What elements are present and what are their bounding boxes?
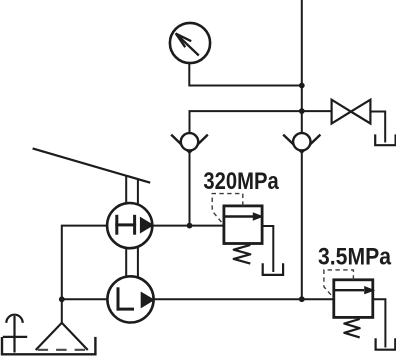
- wire: 3.5MPa relief outlet to tank: [373, 299, 386, 347]
- check valve (right): [283, 133, 320, 152]
- reservoir (bottom left tank): [2, 337, 95, 354]
- tank symbol (top right): [375, 134, 395, 145]
- check valve (left): [171, 133, 208, 152]
- spring of 320MPa relief: [234, 245, 251, 264]
- junction dot (H outlet / check valve): [187, 223, 193, 229]
- junction dot (shutoff branch): [299, 108, 305, 114]
- tank symbol (320MPa relief): [263, 263, 283, 275]
- junction dot (main line / 3.5MPa branch): [299, 296, 305, 302]
- suction strainer: [36, 323, 88, 350]
- wire: H pump outlet to 320MPa relief inlet: [152, 225, 224, 227]
- svg-text:320MPa: 320MPa: [203, 167, 279, 194]
- wire: main vertical supply line: [301, 0, 303, 299]
- wire: shutoff valve outlet to tank: [370, 112, 385, 143]
- pilot line (dashed) of 3.5MPa relief: [324, 270, 354, 298]
- pump L (low pressure): [107, 276, 154, 322]
- pump drive shaft (double lines): [126, 176, 138, 278]
- breather / vent pipe: [6, 315, 22, 353]
- lever (hand pump handle): [33, 148, 151, 182]
- pump H (high pressure): [107, 203, 154, 248]
- wire: gauge branch to main line: [189, 60, 301, 85]
- junction dot (gauge branch): [299, 83, 305, 89]
- svg-text:3.5MPa: 3.5MPa: [318, 243, 391, 270]
- wire: left check valve to H pump outlet line: [189, 152, 191, 225]
- wire: L pump outlet to main line: [154, 298, 302, 300]
- wire: L pump suction branch: [62, 298, 108, 300]
- reservoir lip line: [3, 336, 27, 338]
- relief valve 320MPa: [224, 206, 264, 244]
- wire: H pump suction loop down to strainer: [62, 226, 107, 323]
- spring of 3.5MPa relief: [344, 319, 359, 337]
- wire: branch to 3.5MPa relief inlet: [302, 298, 334, 300]
- pressure gauge: [170, 23, 210, 63]
- pilot line (dashed) of 320MPa relief: [212, 194, 243, 225]
- tank symbol (3.5MPa relief): [376, 338, 396, 349]
- shutoff valve (bowtie): [332, 100, 371, 124]
- wire: 320MPa relief outlet to tank: [262, 226, 273, 272]
- wire: upper horizontal line to shutoff valve: [190, 111, 332, 133]
- relief valve 3.5MPa: [334, 280, 375, 318]
- junction dot (suction line): [59, 296, 65, 302]
- strainer mesh (dashed base): [38, 349, 86, 351]
